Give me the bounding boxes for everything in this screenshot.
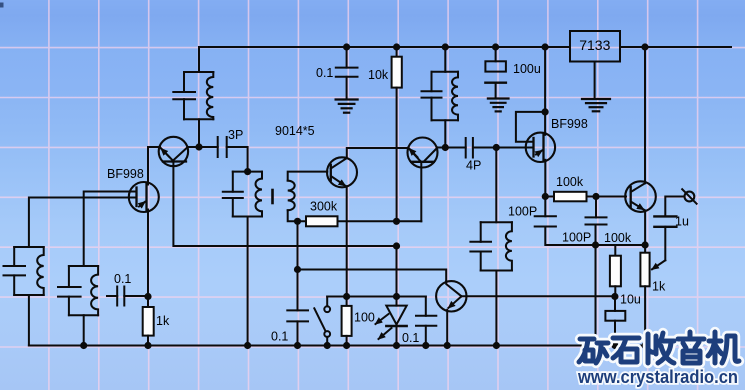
node G1 / tank L6 top <box>493 144 500 151</box>
wire Q2 collector up-right to Q3 emitter <box>347 148 408 158</box>
svg-text:300k: 300k <box>310 200 338 214</box>
transformer T1 core <box>271 190 274 203</box>
transistor Q2 9014 (first IF amp) <box>327 157 357 187</box>
node U2 source junction <box>542 193 549 200</box>
resistor R2 300k (feedback) <box>306 216 338 226</box>
inductor-capacitor tank L1/C1 (antenna tank) <box>14 246 44 248</box>
wire +V to U2 drain <box>544 47 546 133</box>
svg-text:100k: 100k <box>604 231 632 245</box>
capacitor C11 100u electrolytic (supply filter) <box>495 47 497 61</box>
wire base of Q5 <box>596 196 626 198</box>
node R4 right junction <box>592 193 599 200</box>
svg-text:100P: 100P <box>562 231 591 245</box>
wire net x595 down <box>595 245 597 346</box>
svg-text:BF998: BF998 <box>551 117 588 131</box>
terminal J1 earphone output <box>685 192 695 202</box>
inductor-capacitor tank T1-primary/C6 <box>233 171 262 173</box>
node bus2-10k junction <box>393 242 400 249</box>
wire +V top rail <box>199 46 569 48</box>
svg-text:BF998: BF998 <box>107 167 144 181</box>
svg-text:7133: 7133 <box>579 37 610 53</box>
wire bus3 to Q4 base <box>298 270 447 282</box>
node junctions on +V rail <box>343 43 350 50</box>
wire AF bus <box>596 244 646 246</box>
node bus1 left <box>294 218 301 225</box>
capacitor C15 1u (output coupling) <box>654 215 676 217</box>
node R5 bottom junction <box>611 293 618 300</box>
wire Q5 emitter down <box>644 210 646 245</box>
inductor-capacitor tank L5/C7 (IF tank) <box>444 47 446 72</box>
transistor Q1 9014 (oscillator) <box>159 137 188 166</box>
wire emitter bypass bus <box>327 296 426 298</box>
capacitor C12 100P <box>544 197 546 217</box>
wire U1 source down <box>147 211 149 297</box>
wire tank T1 bottom to ground rail <box>247 217 249 346</box>
svg-text:100: 100 <box>354 311 375 325</box>
capacitor C17 0.1 (decoupling on net x297) <box>287 309 308 311</box>
resistor R6 1k potentiometer (volume) <box>644 245 646 253</box>
transistor U2 BF998 dual-gate MOSFET (detector) <box>526 133 555 162</box>
capacitor C8 4P (detector coupling) <box>445 147 465 149</box>
inductor-capacitor tank L6/C9 (detector tank) <box>495 148 497 223</box>
capacitor C16 0.1 (emitter bypass) <box>425 297 427 316</box>
resistor R4 100k <box>545 196 554 198</box>
inductor-capacitor tank L2/C2 <box>69 265 98 267</box>
wire vertical net x297 <box>297 221 299 310</box>
svg-text:100u: 100u <box>513 62 541 76</box>
node source junction <box>144 293 151 300</box>
inductor-capacitor tank L3/C4 (oscillator tank) <box>198 47 200 72</box>
wire U2 source down <box>544 161 546 197</box>
svg-text:10u: 10u <box>620 293 641 307</box>
svg-text:0.1: 0.1 <box>114 272 131 286</box>
node bus3 tap <box>294 266 301 273</box>
watermark logo text 矿石收音机 <box>579 339 608 363</box>
svg-text:1k: 1k <box>652 280 666 294</box>
wire U3 ground pin <box>594 62 596 100</box>
wire tank L2 top to gate G2 <box>84 192 137 267</box>
resistor R5 100k <box>614 245 616 256</box>
wire base bus1 <box>298 220 422 222</box>
ground symbol under U3 <box>582 98 610 100</box>
wire Q1 emitter to U1 drain <box>148 146 160 148</box>
svg-text:0.1: 0.1 <box>271 330 288 344</box>
wire U2 gate2 loop <box>516 112 545 142</box>
svg-text:www.crystalradio.cn: www.crystalradio.cn <box>577 366 738 387</box>
svg-text:0.1: 0.1 <box>316 66 333 80</box>
node U2 gate2 tie <box>542 108 549 115</box>
resistor R7 100 (emitter) <box>346 297 348 306</box>
node AF bus right <box>642 241 649 248</box>
svg-text:9014*5: 9014*5 <box>275 124 315 138</box>
resistor R3 10k (bias) <box>396 47 398 57</box>
svg-text:0.1: 0.1 <box>402 331 419 345</box>
node tank T1 top <box>244 168 251 175</box>
transistor Q3 9014 (second IF amp) <box>408 138 438 168</box>
ground symbol under C10 <box>336 98 358 100</box>
diode D1 LED (tuning indicator) <box>396 246 398 306</box>
inductor T1 secondary <box>288 181 295 211</box>
wire Q3 collector to node <box>437 147 445 149</box>
capacitor C10 0.1 (supply bypass) <box>346 47 348 68</box>
svg-text:100P: 100P <box>508 205 537 219</box>
svg-text:1k: 1k <box>156 314 170 328</box>
node bus1-10k junction <box>393 218 400 225</box>
resistor R1 1k (source bias) <box>147 297 149 308</box>
transistor U1 BF998 dual-gate MOSFET <box>129 182 159 212</box>
wire Q3 base down to bus1 <box>420 162 422 222</box>
svg-text:3P: 3P <box>228 128 243 142</box>
wire Q2 emitter down <box>346 186 348 296</box>
node LED top junction <box>393 293 400 300</box>
capacitor C5 3P (osc coupling) <box>199 146 218 148</box>
wire Q4 emitter to ground rail <box>446 310 448 346</box>
transistor Q5 9014 (AF output) <box>625 181 656 212</box>
capacitor C13 100P <box>595 197 597 218</box>
node Q2 emitter bus junction <box>343 293 350 300</box>
transistor Q4 9014 (AF preamp) <box>436 281 466 311</box>
wire U1 drain up to Q1 emitter <box>147 147 149 184</box>
capacitor C14 10u electrolytic <box>614 297 616 311</box>
svg-text:1u: 1u <box>675 215 689 229</box>
node Q1 collector / tank L3 <box>195 143 202 150</box>
wire Q1 collector to node <box>187 146 199 148</box>
wire ground bottom rail <box>29 345 648 347</box>
wire Q4 collector bus <box>462 295 615 297</box>
wire Q5 collector to +V <box>644 47 646 183</box>
node Q3 collector / tank L5 <box>442 144 449 151</box>
regulator U3 7133 <box>570 31 620 62</box>
svg-text:4P: 4P <box>466 159 481 173</box>
wire Q1 base down to bus <box>173 162 396 247</box>
ground symbol under C11 <box>488 97 509 99</box>
wire pot wiper arm <box>652 260 665 269</box>
capacitor C3 0.1 (source coupling) <box>107 295 117 297</box>
node AF bus left <box>592 241 599 248</box>
node junctions on ground rail <box>80 342 87 349</box>
switch S1 power <box>326 297 328 307</box>
wire tank L1 top to gate G1 <box>29 198 137 248</box>
svg-text:100k: 100k <box>556 175 584 189</box>
svg-text:10k: 10k <box>368 68 389 82</box>
